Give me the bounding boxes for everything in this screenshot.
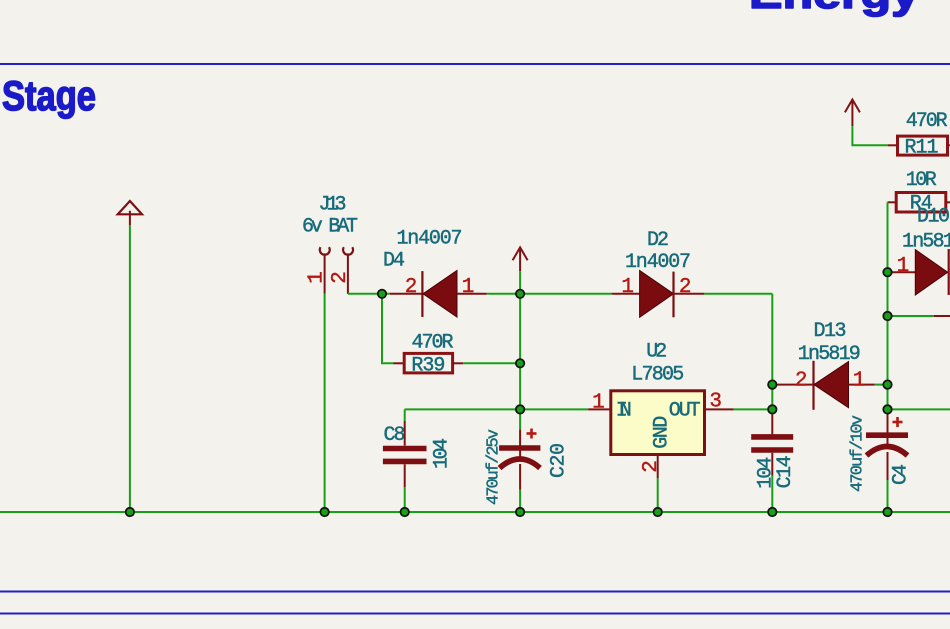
resistor R4 right lead bbox=[946, 201, 950, 203]
svg-text:2: 2 bbox=[795, 369, 808, 392]
diode D4 pin 2 lead bbox=[390, 293, 422, 295]
svg-text:2: 2 bbox=[329, 271, 352, 284]
svg-text:1: 1 bbox=[462, 276, 475, 299]
resistor R39 right lead bbox=[453, 362, 464, 364]
junction node F bbox=[883, 405, 891, 413]
svg-text:D13: D13 bbox=[814, 320, 847, 343]
diode D2 cathode bar bbox=[672, 272, 674, 318]
capacitor C4 plus bbox=[893, 417, 903, 427]
wire node B down to C20 bbox=[519, 294, 521, 430]
junction node B bbox=[516, 290, 524, 298]
regulator U2 pin 1 lead bbox=[588, 408, 611, 410]
svg-text:L7805: L7805 bbox=[631, 363, 684, 386]
resistor R11 left lead bbox=[888, 144, 897, 146]
svg-text:1: 1 bbox=[897, 255, 910, 278]
svg-text:J13: J13 bbox=[319, 194, 347, 217]
svg-text:2: 2 bbox=[405, 276, 418, 299]
power arrow right bbox=[845, 100, 860, 127]
svg-text:2: 2 bbox=[640, 460, 663, 473]
diode D10 pin 1 lead bbox=[888, 271, 916, 273]
svg-text:1: 1 bbox=[306, 271, 329, 284]
pin stub right y316 bbox=[934, 315, 950, 317]
svg-text:470R: 470R bbox=[906, 110, 948, 133]
wire D2 to corner bbox=[704, 293, 772, 295]
capacitor C4 polarized bbox=[866, 409, 908, 512]
diode D4 cathode bar bbox=[421, 271, 423, 317]
connector J13 pin 2 bbox=[343, 247, 353, 294]
wire R4 down right bus bbox=[887, 202, 889, 409]
wire node F right y409 bbox=[888, 408, 950, 410]
sheet border line bottom inner bbox=[0, 613, 950, 615]
wire arrow right to R11 bbox=[852, 126, 888, 145]
svg-text:10R: 10R bbox=[906, 169, 937, 192]
sheet border line top bbox=[0, 63, 950, 65]
diode D10 body bbox=[915, 250, 947, 295]
diode D10 cathode bar bbox=[948, 249, 950, 295]
svg-text:1: 1 bbox=[853, 369, 866, 392]
wire D4 junction down to R39 bbox=[382, 294, 393, 364]
svg-text:2: 2 bbox=[679, 276, 692, 299]
svg-text:C8: C8 bbox=[384, 424, 406, 447]
junction ground 2 bbox=[320, 508, 328, 516]
junction right D13 bbox=[883, 380, 891, 388]
resistor R11 body bbox=[898, 136, 948, 155]
sheet border line bottom outer bbox=[0, 591, 950, 593]
svg-text:1n4007: 1n4007 bbox=[625, 251, 691, 274]
svg-text:D10: D10 bbox=[917, 205, 950, 228]
resistor R39 left lead bbox=[393, 362, 404, 364]
power flag PWR left bbox=[118, 201, 142, 225]
regulator U2 pin 2 lead GND bbox=[657, 455, 659, 479]
junction ground 6 bbox=[768, 508, 776, 516]
junction right y316 bbox=[883, 312, 891, 320]
wire R39 to node C bbox=[463, 362, 520, 364]
junction node E bbox=[768, 405, 776, 413]
resistor R39 body bbox=[404, 353, 452, 373]
svg-text:470R: 470R bbox=[412, 332, 454, 355]
svg-text:1n5819: 1n5819 bbox=[798, 343, 861, 366]
wire J13 pin2 to D4 bbox=[348, 293, 390, 295]
wire corner down to node E bbox=[771, 294, 773, 410]
svg-text:IN: IN bbox=[616, 400, 632, 423]
junction ground 3 bbox=[401, 508, 409, 516]
svg-text:C4: C4 bbox=[889, 464, 912, 485]
svg-text:OUT: OUT bbox=[669, 400, 701, 423]
wire power flag to ground bbox=[129, 225, 131, 512]
capacitor C8 bbox=[383, 409, 427, 512]
diode D4 body bbox=[423, 271, 457, 318]
wire mid right y316 bbox=[888, 315, 934, 317]
svg-text:1: 1 bbox=[621, 276, 634, 299]
capacitor C20 plus bbox=[527, 429, 537, 439]
svg-text:GND: GND bbox=[650, 416, 673, 449]
resistor R4 body bbox=[896, 193, 946, 213]
svg-text:1n5819: 1n5819 bbox=[902, 230, 950, 253]
diode D13 pin 2 lead bbox=[776, 384, 814, 386]
svg-text:D4: D4 bbox=[383, 250, 405, 273]
svg-text:3: 3 bbox=[709, 390, 722, 413]
svg-text:D2: D2 bbox=[647, 229, 669, 252]
diode D13 pin 1 lead bbox=[849, 384, 875, 386]
diode D2 pin 1 lead bbox=[612, 293, 640, 295]
wire C8 to IN bbox=[405, 408, 588, 410]
wire arrow to node B bbox=[519, 271, 521, 294]
diode D4 pin 1 lead bbox=[457, 293, 487, 295]
junction ground 7 bbox=[883, 508, 891, 516]
junction D10 anode bbox=[883, 268, 891, 276]
resistor R4 left lead bbox=[888, 201, 897, 203]
svg-text:6v BAT: 6v BAT bbox=[302, 216, 358, 239]
junction ground 5 bbox=[654, 508, 662, 516]
wire D4 to node B bbox=[487, 293, 520, 295]
junction ground 1 bbox=[126, 508, 134, 516]
diode D13 body bbox=[814, 362, 849, 408]
ground bus wire bbox=[0, 511, 950, 513]
wire D13 to right bus bbox=[875, 384, 888, 386]
diode D13 cathode bar bbox=[812, 361, 814, 410]
junction node D bbox=[516, 405, 524, 413]
diode D2 pin 2 lead bbox=[674, 293, 705, 295]
junction node E top bbox=[768, 380, 776, 388]
junction ground 4 bbox=[516, 508, 524, 516]
svg-text:Stage: Stage bbox=[2, 72, 96, 119]
svg-text:C20: C20 bbox=[548, 443, 571, 478]
capacitor C20 polarized bbox=[499, 429, 540, 512]
svg-text:C14: C14 bbox=[774, 455, 797, 488]
wire U2 GND to ground bbox=[657, 478, 659, 512]
regulator U2 body bbox=[611, 391, 705, 455]
wire U2 OUT to node E bbox=[734, 408, 773, 410]
svg-text:1n4007: 1n4007 bbox=[397, 227, 463, 250]
junction node C bbox=[516, 359, 524, 367]
junction node A bbox=[378, 290, 386, 298]
capacitor C14 bbox=[751, 409, 793, 512]
diode D2 body bbox=[640, 271, 674, 318]
regulator U2 pin 3 lead bbox=[705, 408, 734, 410]
svg-text:U2: U2 bbox=[646, 341, 667, 364]
svg-text:1: 1 bbox=[592, 391, 605, 414]
resistor R11 right lead bbox=[948, 144, 950, 146]
svg-text:R11: R11 bbox=[905, 137, 939, 160]
svg-text:Energy: Energy bbox=[749, 0, 920, 17]
power arrow mid bbox=[513, 247, 528, 271]
wire node B to D2 bbox=[520, 293, 612, 295]
svg-text:104: 104 bbox=[430, 438, 453, 469]
wire J13 pin1 to ground bbox=[324, 294, 326, 512]
svg-text:R39: R39 bbox=[411, 355, 445, 378]
connector J13 pin 1 bbox=[320, 247, 330, 294]
